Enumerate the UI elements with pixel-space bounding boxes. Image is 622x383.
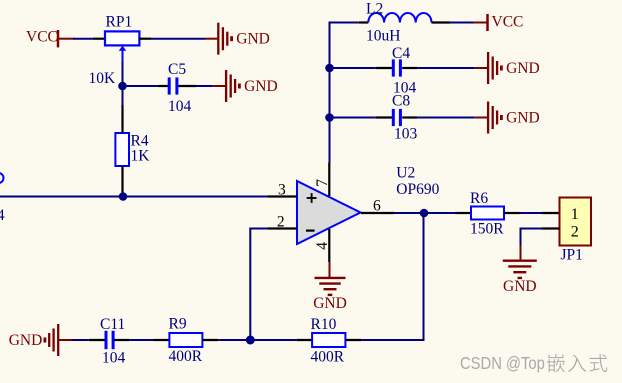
power ground GND2	[213, 70, 278, 102]
label L2 designator	[366, 1, 383, 18]
pin 3 (non-inverting input)	[268, 195, 298, 197]
wire R6 to JP1	[520, 212, 542, 214]
wire C4 to GND	[417, 67, 474, 69]
node C junction (C4 tap)	[325, 64, 334, 73]
pin 4 (V-)	[328, 229, 330, 262]
svg-text:GND: GND	[503, 278, 537, 295]
label RP1 designator	[106, 14, 133, 31]
label C11 value 104	[102, 349, 126, 366]
label U2 comment OP690	[396, 181, 439, 198]
capacitor C5	[169, 77, 177, 94]
wire C5 to GND	[196, 85, 213, 87]
power ground GND5	[475, 102, 540, 134]
label C8 value 103	[394, 125, 418, 142]
resistor R10	[312, 333, 345, 347]
potentiometer RP1	[105, 31, 139, 62]
wire R10 to output	[361, 339, 424, 341]
label R6 designator	[470, 190, 488, 207]
wire L2 to VCC	[450, 22, 474, 24]
pin number 2	[277, 214, 285, 231]
svg-text:R9: R9	[169, 315, 187, 332]
wire node C to C4	[330, 67, 376, 69]
label JP1 designator	[561, 247, 583, 264]
pin R4.2	[121, 166, 123, 197]
pin R10.1	[296, 339, 312, 341]
label C4 value 104	[393, 79, 417, 96]
pin R6.2	[504, 212, 520, 214]
pin R4.1	[121, 105, 123, 133]
power ground GND6 (JP1)	[503, 246, 537, 295]
op-amp U2 body	[297, 181, 361, 244]
svg-text:JP1: JP1	[561, 247, 583, 264]
svg-text:VCC: VCC	[492, 14, 524, 31]
svg-text:GND: GND	[244, 78, 278, 95]
power ground GND1	[205, 23, 270, 55]
connector JP1	[560, 198, 592, 246]
label C5 value 104	[168, 98, 192, 115]
pin 7 (V+)	[328, 163, 330, 197]
pin L2.1	[359, 21, 369, 23]
svg-text:GND: GND	[506, 60, 540, 77]
wire GND to C11	[72, 339, 89, 341]
svg-text:10K: 10K	[89, 70, 117, 87]
label C4 designator	[392, 45, 410, 62]
wire node A to C5	[123, 85, 159, 87]
pin number 2 (JP1)	[571, 224, 579, 241]
wire input net	[0, 196, 268, 198]
svg-text:R10: R10	[311, 316, 337, 333]
pin C5.1	[158, 85, 168, 87]
wire R9 to node F	[218, 339, 296, 341]
svg-text:7: 7	[314, 179, 331, 187]
pin RP1.2	[139, 38, 151, 40]
svg-text:GND: GND	[313, 295, 347, 312]
resistor R4	[115, 133, 129, 166]
resistor R6	[471, 207, 504, 220]
label R10 value 400R	[311, 349, 345, 366]
wire JP1 pin2 to GND	[521, 228, 542, 246]
pin number 1	[571, 206, 579, 223]
power ground GND3 (op-amp V-)	[313, 262, 347, 312]
wire C11 to R9	[129, 339, 153, 341]
pin R6.1	[456, 212, 472, 214]
pin C4.1	[376, 67, 392, 69]
node E junction (output)	[420, 209, 429, 218]
svg-text:6: 6	[373, 197, 381, 214]
label L2 value 10uH	[366, 28, 400, 45]
svg-text:L2: L2	[366, 1, 383, 18]
label C5 designator	[168, 61, 186, 78]
power port VCC (right)	[474, 14, 524, 31]
svg-text:VCC: VCC	[26, 28, 58, 45]
wire op-amp V+ rail	[329, 23, 359, 163]
capacitor C11	[106, 331, 113, 349]
label R4 value 1K	[131, 148, 151, 165]
svg-text:R6: R6	[470, 190, 488, 207]
pin C11.1	[89, 339, 105, 341]
pin C4.2	[402, 67, 417, 69]
svg-text:4: 4	[314, 242, 331, 250]
label U2 designator	[396, 165, 415, 182]
pin number 6	[373, 197, 381, 214]
pin number 7	[314, 179, 331, 187]
pin L2.2	[432, 21, 451, 23]
cropped net label circle (left edge)	[0, 173, 4, 183]
resistor R9	[169, 333, 202, 347]
pin R10.2	[345, 339, 361, 341]
pin JP1.2	[542, 227, 560, 229]
svg-text:1: 1	[571, 206, 579, 223]
svg-text:10uH: 10uH	[366, 28, 400, 45]
svg-text:C8: C8	[392, 92, 410, 109]
watermark CSDN @Top嵌入式	[460, 354, 607, 373]
svg-text:GND: GND	[9, 332, 43, 349]
svg-text:C4: C4	[392, 45, 410, 62]
svg-text:4: 4	[0, 207, 5, 224]
label C11 designator	[100, 316, 125, 333]
svg-text:103: 103	[394, 125, 418, 142]
svg-text:C11: C11	[100, 316, 125, 333]
wire node D to C8	[330, 117, 376, 119]
label R9 designator	[169, 315, 187, 332]
wire output net	[394, 212, 456, 214]
label C8 designator	[392, 92, 410, 109]
wire feedback to pin 2	[249, 229, 267, 341]
label R9 value 400R	[169, 348, 203, 365]
pin 6 (output)	[361, 212, 394, 214]
svg-text:104: 104	[102, 349, 126, 366]
pin number 4	[314, 242, 331, 250]
pin C8.2	[402, 116, 417, 118]
inductor L2	[368, 13, 431, 23]
wire VCC to RP1	[73, 38, 93, 40]
cropped net label 4 (left edge)	[0, 207, 5, 224]
wire node A to R4	[122, 86, 124, 105]
power port VCC (left)	[26, 28, 74, 47]
capacitor C8	[393, 109, 400, 126]
wire C8 to GND	[417, 117, 474, 119]
svg-text:OP690: OP690	[396, 181, 439, 198]
svg-text:3: 3	[278, 181, 286, 198]
wire RP1 to GND	[151, 38, 205, 40]
pin C8.1	[376, 116, 392, 118]
pin R9.2	[202, 339, 218, 341]
svg-text:104: 104	[168, 98, 192, 115]
node D junction (C8 tap)	[325, 113, 334, 122]
label R6 value 150R	[470, 221, 504, 238]
label R10 designator	[311, 316, 337, 333]
wire output to feedback R10	[423, 213, 425, 340]
wire RP1 wiper to node A	[122, 62, 124, 86]
pin 2 (inverting input)	[268, 227, 298, 229]
svg-text:C5: C5	[168, 61, 186, 78]
svg-text:1K: 1K	[131, 148, 151, 165]
label R4 designator	[131, 133, 149, 150]
node B junction	[119, 192, 128, 201]
pin RP1.1	[93, 38, 105, 40]
svg-text:GND: GND	[236, 31, 270, 48]
pin R9.1	[154, 339, 170, 341]
svg-text:150R: 150R	[470, 221, 504, 238]
svg-text:RP1: RP1	[106, 14, 133, 31]
power ground GND7 (bottom left)	[9, 324, 72, 356]
capacitor C4	[393, 59, 400, 76]
pin C5.2	[178, 85, 196, 87]
node A junction	[118, 82, 127, 91]
svg-text:400R: 400R	[169, 348, 203, 365]
pin number 3	[278, 181, 286, 198]
pin JP1.1	[542, 212, 560, 214]
svg-text:400R: 400R	[311, 349, 345, 366]
svg-text:U2: U2	[396, 165, 415, 182]
power ground GND4	[475, 52, 540, 84]
label RP1 value 10K	[89, 70, 117, 87]
svg-text:GND: GND	[506, 110, 540, 127]
svg-text:2: 2	[277, 214, 285, 231]
node F junction	[246, 336, 255, 345]
pin C11.2	[114, 339, 129, 341]
svg-text:2: 2	[571, 224, 579, 241]
svg-text:CSDN @Top: CSDN @Top	[460, 354, 545, 373]
